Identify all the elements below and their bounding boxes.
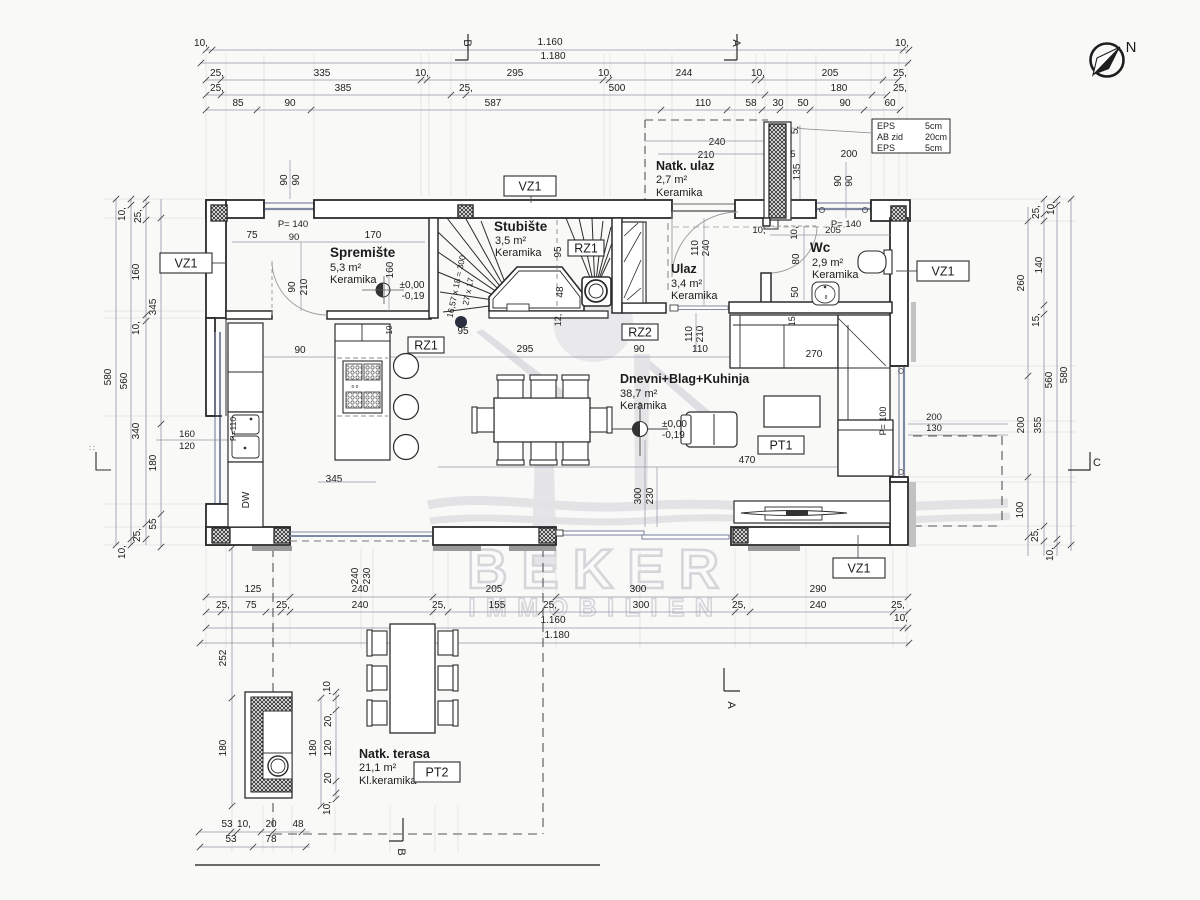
- label box VZ1 top: [530, 196, 532, 203]
- interior dims living row: [438, 356, 736, 358]
- svg-text:5cm: 5cm: [925, 121, 942, 131]
- svg-text:345: 345: [326, 474, 343, 485]
- svg-text:48: 48: [555, 286, 566, 298]
- svg-text:75: 75: [245, 600, 257, 611]
- svg-text:180: 180: [308, 739, 319, 756]
- svg-text:25,: 25,: [276, 600, 290, 611]
- svg-text:210: 210: [299, 278, 310, 295]
- wall right window dim: [890, 477, 908, 482]
- svg-text:Spremište: Spremište: [330, 245, 396, 260]
- svg-text:25,: 25,: [1030, 528, 1041, 542]
- svg-text:B: B: [395, 848, 407, 855]
- natk ulaz dashed boundary: [644, 120, 646, 200]
- section mark A top: [724, 34, 737, 60]
- svg-text:Wc: Wc: [810, 240, 831, 255]
- svg-text:8: 8: [825, 295, 828, 301]
- svg-text:BEKER: BEKER: [467, 537, 733, 600]
- svg-text:DW: DW: [241, 491, 252, 508]
- svg-text:580: 580: [103, 368, 114, 385]
- dimension lines left: [115, 199, 117, 545]
- dining chair right: [590, 408, 611, 432]
- svg-text:300: 300: [633, 487, 644, 504]
- svg-text:1.160: 1.160: [540, 615, 565, 626]
- sofa horizontal section: [730, 315, 838, 368]
- bar stool 2: [394, 395, 419, 420]
- svg-text:160: 160: [131, 263, 142, 280]
- svg-text:Keramika: Keramika: [495, 247, 542, 259]
- EPS legend box: [872, 119, 950, 153]
- kitchen sink unit: [228, 412, 263, 462]
- wall ulaz-wc lower: [761, 273, 771, 304]
- svg-text:B: B: [461, 39, 473, 46]
- svg-text:110: 110: [692, 344, 708, 355]
- hatch square top-left corner: [211, 205, 227, 221]
- toilet: [884, 250, 892, 274]
- svg-text:290: 290: [810, 584, 827, 595]
- svg-text:90: 90: [289, 232, 300, 243]
- living room 470 dim: [438, 466, 892, 468]
- svg-text:Natk. terasa: Natk. terasa: [359, 747, 431, 761]
- shadow under bottom wall middle: [433, 546, 481, 551]
- svg-text:53: 53: [221, 819, 233, 830]
- svg-text:110: 110: [690, 240, 701, 256]
- svg-text:-0,19: -0,19: [662, 430, 685, 441]
- svg-text:EPS: EPS: [877, 143, 895, 153]
- svg-text:270: 270: [806, 349, 823, 360]
- svg-text:252: 252: [218, 649, 229, 666]
- wall bottom-right corner piece: [890, 480, 908, 545]
- svg-text:-0,19: -0,19: [402, 291, 425, 302]
- svg-text:560: 560: [1044, 371, 1055, 388]
- svg-text:340: 340: [131, 422, 142, 439]
- svg-text:560: 560: [119, 372, 130, 389]
- dining chair top 1: [498, 376, 523, 398]
- dining chair bottom 2: [531, 442, 556, 464]
- wall bottom middle segment: [433, 527, 556, 545]
- watermark logo tower: [531, 399, 557, 570]
- wall right upper: [890, 218, 908, 366]
- svg-text:3,5 m²: 3,5 m²: [495, 235, 527, 247]
- interior dims kitchen row: [226, 356, 438, 358]
- terrace chair L1: [368, 631, 387, 655]
- dining chair top 3: [563, 376, 588, 398]
- svg-text:90: 90: [287, 281, 298, 293]
- frame corner mark left: [96, 452, 111, 470]
- label box RZ1 stairs: [568, 240, 604, 256]
- shadow right wall upper: [911, 302, 916, 362]
- wall stairs left: [429, 218, 438, 318]
- svg-text:587: 587: [485, 98, 502, 109]
- svg-text:345: 345: [148, 298, 159, 315]
- svg-text:2,7 m²: 2,7 m²: [656, 174, 688, 186]
- svg-text:130: 130: [926, 423, 942, 434]
- svg-text:P=110: P=110: [228, 417, 238, 441]
- watermark logo sun circle: [553, 282, 633, 362]
- svg-text:15,: 15,: [1031, 313, 1042, 327]
- svg-text:10,: 10,: [1046, 201, 1057, 215]
- svg-text:300: 300: [633, 600, 650, 611]
- shadow under bottom wall kitchen: [252, 546, 292, 551]
- hatch square top stair redraw: [458, 205, 473, 218]
- svg-text:125: 125: [245, 584, 262, 595]
- svg-text:160: 160: [179, 429, 195, 440]
- svg-text:10,: 10,: [751, 68, 765, 79]
- dimension lines right: [1027, 207, 1029, 556]
- svg-text:20cm: 20cm: [925, 132, 947, 142]
- hatch square bottom kitchen: [274, 528, 290, 543]
- svg-text:120: 120: [323, 739, 334, 756]
- svg-text:78: 78: [265, 834, 277, 845]
- tv panel: [765, 507, 822, 520]
- dimension lines bottom-left lowest: [199, 831, 310, 833]
- svg-text:90: 90: [294, 345, 306, 356]
- svg-text:90: 90: [291, 174, 302, 186]
- svg-text:,10: ,10: [322, 681, 333, 695]
- svg-text:75: 75: [246, 230, 258, 241]
- svg-text:244: 244: [676, 68, 693, 79]
- hatch square bottom-left corner: [212, 528, 230, 543]
- section mark B bottom: [389, 818, 403, 841]
- dimension lines bottom: [206, 596, 908, 598]
- svg-text:260: 260: [1016, 274, 1027, 291]
- EPS leader line: [791, 128, 872, 133]
- svg-text:C: C: [1093, 457, 1101, 469]
- svg-text:160: 160: [385, 261, 396, 278]
- svg-text:180: 180: [831, 83, 848, 94]
- bbq inner shelf: [263, 753, 292, 779]
- wall spremiste bottom main: [327, 311, 431, 319]
- label box RZ2: [622, 324, 658, 340]
- svg-text:10,: 10,: [894, 613, 908, 624]
- watermark logo left blade: [476, 329, 578, 408]
- svg-text:10,: 10,: [415, 68, 429, 79]
- svg-text:90: 90: [839, 98, 851, 109]
- svg-text:VZ1: VZ1: [848, 562, 871, 576]
- bbq hatched U: [251, 697, 292, 792]
- section mark C right: [1068, 452, 1090, 470]
- bar stool 3: [394, 435, 419, 460]
- stairs winder treads left: [438, 218, 513, 312]
- terrace chair L2: [368, 666, 387, 690]
- svg-text:205: 205: [486, 584, 503, 595]
- svg-text:25,: 25,: [893, 83, 907, 94]
- svg-text:95: 95: [457, 326, 469, 337]
- svg-text:50: 50: [797, 98, 809, 109]
- svg-text:200: 200: [926, 412, 942, 423]
- stairs dim line 95: [556, 220, 558, 308]
- svg-text:AB zid: AB zid: [877, 132, 903, 142]
- hatch square top stair wall: [458, 205, 473, 218]
- hatch square bottom-left redraw: [212, 528, 230, 543]
- shadow under bottom wall right: [748, 546, 800, 551]
- terrace dashed boundary bottom: [273, 833, 543, 835]
- svg-text:55: 55: [148, 518, 159, 530]
- wc door arc: [770, 226, 817, 273]
- svg-text:25,: 25,: [432, 600, 446, 611]
- svg-text:295: 295: [507, 68, 524, 79]
- svg-text:3,4 m²: 3,4 m²: [671, 278, 703, 290]
- svg-text:20,: 20,: [323, 713, 334, 727]
- svg-text:180: 180: [218, 739, 229, 756]
- svg-text:25,: 25,: [459, 83, 473, 94]
- window left: [214, 332, 216, 504]
- washbasin: [812, 282, 839, 305]
- elevation marker living: [612, 428, 668, 430]
- svg-text:90: 90: [279, 174, 290, 186]
- svg-text:10,: 10,: [598, 68, 612, 79]
- svg-text:90: 90: [633, 344, 645, 355]
- svg-text:230: 230: [645, 487, 656, 504]
- svg-text:300: 300: [630, 584, 647, 595]
- sliding door bottom living: [558, 531, 644, 535]
- svg-text:12,: 12,: [553, 314, 563, 327]
- dashed patio rect right of house: [913, 435, 1002, 437]
- svg-text:240: 240: [352, 584, 369, 595]
- armchair: [686, 412, 737, 447]
- svg-text:Keramika: Keramika: [671, 290, 718, 302]
- svg-text:A: A: [730, 39, 742, 47]
- wall left bottom corner: [206, 504, 230, 545]
- svg-text:1.180: 1.180: [544, 630, 569, 641]
- svg-text:PT1: PT1: [770, 439, 793, 453]
- svg-text:Ulaz: Ulaz: [671, 262, 697, 276]
- svg-text:25,: 25,: [210, 83, 224, 94]
- svg-text:VZ1: VZ1: [175, 257, 198, 271]
- svg-text:Stubište: Stubište: [494, 219, 548, 234]
- svg-text:VZ1: VZ1: [932, 265, 955, 279]
- watermark logo right trunk: [634, 354, 650, 508]
- stove: [343, 361, 382, 413]
- tv sideboard: [734, 501, 890, 523]
- svg-text:240: 240: [352, 600, 369, 611]
- wall top right corner piece: [871, 200, 910, 221]
- svg-text:200: 200: [841, 149, 858, 160]
- label box RZ1 kitchen: [408, 337, 444, 353]
- svg-text:10,: 10,: [1045, 547, 1056, 561]
- stairs winder treads right: [566, 218, 612, 290]
- svg-text:25,: 25,: [133, 209, 144, 223]
- svg-text:15,: 15,: [787, 314, 797, 327]
- wall top chimney section: [735, 200, 816, 218]
- terrace dashed boundary left: [272, 548, 274, 832]
- wall right lower segment shadow: [909, 482, 916, 547]
- svg-text:IMMOBILIEN: IMMOBILIEN: [469, 594, 724, 622]
- svg-text:RZ1: RZ1: [414, 339, 438, 353]
- svg-text:110: 110: [695, 98, 711, 109]
- label box PT2: [414, 762, 460, 782]
- chimney: [764, 122, 791, 220]
- svg-text:2,9 m²: 2,9 m²: [812, 257, 844, 269]
- svg-text:90: 90: [284, 98, 296, 109]
- svg-text:95: 95: [553, 246, 564, 258]
- wall left upper: [206, 200, 226, 318]
- wall spremiste bottom stub: [226, 311, 272, 319]
- svg-text:90: 90: [833, 175, 844, 187]
- dining chair bottom 1: [498, 442, 523, 464]
- wall stairs-ulaz: [612, 218, 622, 313]
- svg-text:58: 58: [745, 98, 757, 109]
- svg-text:110: 110: [684, 326, 695, 342]
- stairs newel square: [582, 277, 611, 306]
- svg-text:20: 20: [323, 772, 334, 784]
- svg-text:25,: 25,: [216, 600, 230, 611]
- svg-text:10,: 10,: [194, 38, 208, 49]
- svg-text:10,: 10,: [237, 819, 251, 830]
- svg-text:25,: 25,: [1031, 205, 1042, 219]
- dining chair top 2: [531, 376, 556, 398]
- wall top natk ulaz threshold: [672, 203, 735, 205]
- svg-text:±0,00: ±0,00: [400, 280, 425, 291]
- hatch square bottom right a: [733, 528, 748, 543]
- hatch square top-right corner redraw: [891, 206, 906, 221]
- kitchen counter lower / DW: [228, 462, 263, 527]
- hatch square top-right corner: [891, 206, 906, 221]
- svg-text:80: 80: [791, 253, 802, 265]
- svg-text:25,: 25,: [891, 600, 905, 611]
- window bottom kitchen slider: [290, 531, 433, 533]
- svg-text:30: 30: [772, 98, 784, 109]
- svg-text:Keramika: Keramika: [620, 400, 667, 412]
- svg-text:N: N: [1126, 39, 1137, 56]
- terrace chair R2: [438, 666, 457, 690]
- svg-text:: :: : :: [89, 445, 95, 452]
- svg-text:48: 48: [292, 819, 304, 830]
- svg-text:10,: 10,: [895, 38, 909, 49]
- entrance door arc: [672, 212, 738, 277]
- section mark B top: [455, 34, 468, 60]
- kitchen island: [335, 324, 390, 460]
- svg-text:60: 60: [884, 98, 896, 109]
- svg-text:120: 120: [179, 441, 195, 452]
- hatch square top-left corner redraw: [211, 205, 227, 221]
- svg-text:100: 100: [1015, 501, 1026, 518]
- svg-text:38,7 m²: 38,7 m²: [620, 388, 658, 400]
- dining table: [494, 398, 590, 442]
- svg-text:Keramika: Keramika: [656, 187, 703, 199]
- svg-text:205: 205: [822, 68, 839, 79]
- svg-text:135: 135: [792, 163, 803, 180]
- svg-text:295: 295: [517, 344, 534, 355]
- wall bottom kitchen segment: [206, 527, 290, 545]
- svg-text:Kl.keramika: Kl.keramika: [359, 775, 417, 787]
- wardrobe ulaz: [622, 222, 646, 303]
- svg-text:A: A: [725, 701, 737, 709]
- wall ulaz bottom: [622, 303, 666, 313]
- dining chair left: [473, 408, 494, 432]
- svg-text:10,: 10,: [789, 226, 800, 239]
- bbq outer: [245, 692, 292, 798]
- svg-text:5cm: 5cm: [925, 143, 942, 153]
- svg-text:21,1 m²: 21,1 m²: [359, 762, 397, 774]
- dining chair bottom 3: [563, 442, 588, 464]
- wall ulaz-wc stub: [763, 218, 770, 226]
- svg-text:155: 155: [489, 600, 506, 611]
- svg-text:240: 240: [810, 600, 827, 611]
- svg-text:P= 140: P= 140: [278, 219, 308, 230]
- hatch square bottom right corner black: [892, 527, 906, 541]
- wall left kitchen part: [206, 318, 215, 416]
- sofa chaise: [838, 420, 893, 476]
- svg-text:1.160: 1.160: [537, 37, 562, 48]
- svg-text:25,: 25,: [732, 600, 746, 611]
- svg-text:355: 355: [1033, 416, 1044, 433]
- svg-text:VZ1: VZ1: [519, 180, 542, 194]
- svg-text:PT2: PT2: [426, 766, 449, 780]
- watermark logo right blade: [641, 358, 726, 430]
- label box VZ1 right: [896, 270, 917, 272]
- svg-text:200: 200: [1016, 416, 1027, 433]
- svg-text:Natk. ulaz: Natk. ulaz: [656, 159, 714, 173]
- window top wc: [816, 202, 871, 204]
- svg-text:RZ1: RZ1: [574, 242, 598, 256]
- sliding door ulaz-living: [673, 306, 728, 310]
- svg-text:53: 53: [225, 834, 237, 845]
- window top spremiste: [264, 202, 314, 204]
- svg-text:±0,00: ±0,00: [662, 419, 687, 430]
- terrace vertical dims: [231, 548, 233, 806]
- coffee table: [764, 396, 820, 427]
- svg-text:10,: 10,: [322, 801, 333, 815]
- svg-text:5,: 5,: [790, 126, 801, 134]
- svg-text:140: 140: [1034, 256, 1045, 273]
- svg-text:240: 240: [709, 137, 726, 148]
- svg-text:335: 335: [314, 68, 331, 79]
- svg-text:10,: 10,: [131, 321, 142, 335]
- svg-text:10: 10: [385, 325, 394, 334]
- svg-text:25,: 25,: [893, 68, 907, 79]
- wc interior dims: [770, 234, 890, 236]
- svg-text:10,: 10,: [117, 207, 128, 221]
- dimension lines top: [206, 49, 909, 51]
- label box PT1: [758, 436, 804, 454]
- svg-text:580: 580: [1059, 366, 1070, 383]
- label box VZ1 bottom: [857, 535, 859, 558]
- svg-text:5,3 m²: 5,3 m²: [330, 262, 362, 274]
- svg-text:10,: 10,: [117, 545, 128, 559]
- bottom border line: [195, 864, 600, 866]
- svg-text:o o: o o: [352, 384, 359, 390]
- terrace chair R1: [438, 631, 457, 655]
- svg-text:Dnevni+Blag+Kuhinja: Dnevni+Blag+Kuhinja: [620, 372, 750, 386]
- svg-text:240: 240: [701, 239, 712, 256]
- svg-text:210: 210: [695, 325, 706, 342]
- svg-text:20: 20: [265, 819, 277, 830]
- svg-text:25,: 25,: [132, 528, 143, 542]
- elevation marker spremiste: [376, 283, 390, 297]
- svg-text:230: 230: [362, 567, 373, 584]
- svg-text:Keramika: Keramika: [812, 269, 859, 281]
- wall top from left corner to spremiste window: [206, 200, 264, 218]
- svg-text:180: 180: [148, 454, 159, 471]
- stairs reference dot 95: [455, 316, 467, 328]
- window right: [898, 366, 900, 477]
- section mark A bottom: [724, 668, 740, 691]
- wall top middle section: [314, 200, 672, 218]
- label box VZ1 left: [204, 262, 226, 264]
- svg-text:385: 385: [335, 83, 352, 94]
- terrace table: [390, 624, 435, 733]
- svg-text:500: 500: [609, 83, 626, 94]
- svg-text:P= 100: P= 100: [878, 407, 888, 436]
- wall wc bottom: [729, 302, 892, 313]
- bbq burner circle: [268, 756, 288, 776]
- stairs bottom step strip: [489, 311, 608, 318]
- svg-text:Keramika: Keramika: [330, 274, 377, 286]
- stairs landing trapezoid: [489, 267, 584, 311]
- spremiste door arc: [272, 261, 327, 315]
- terrace dashed boundary right: [542, 548, 544, 834]
- svg-text:10,: 10,: [752, 225, 765, 236]
